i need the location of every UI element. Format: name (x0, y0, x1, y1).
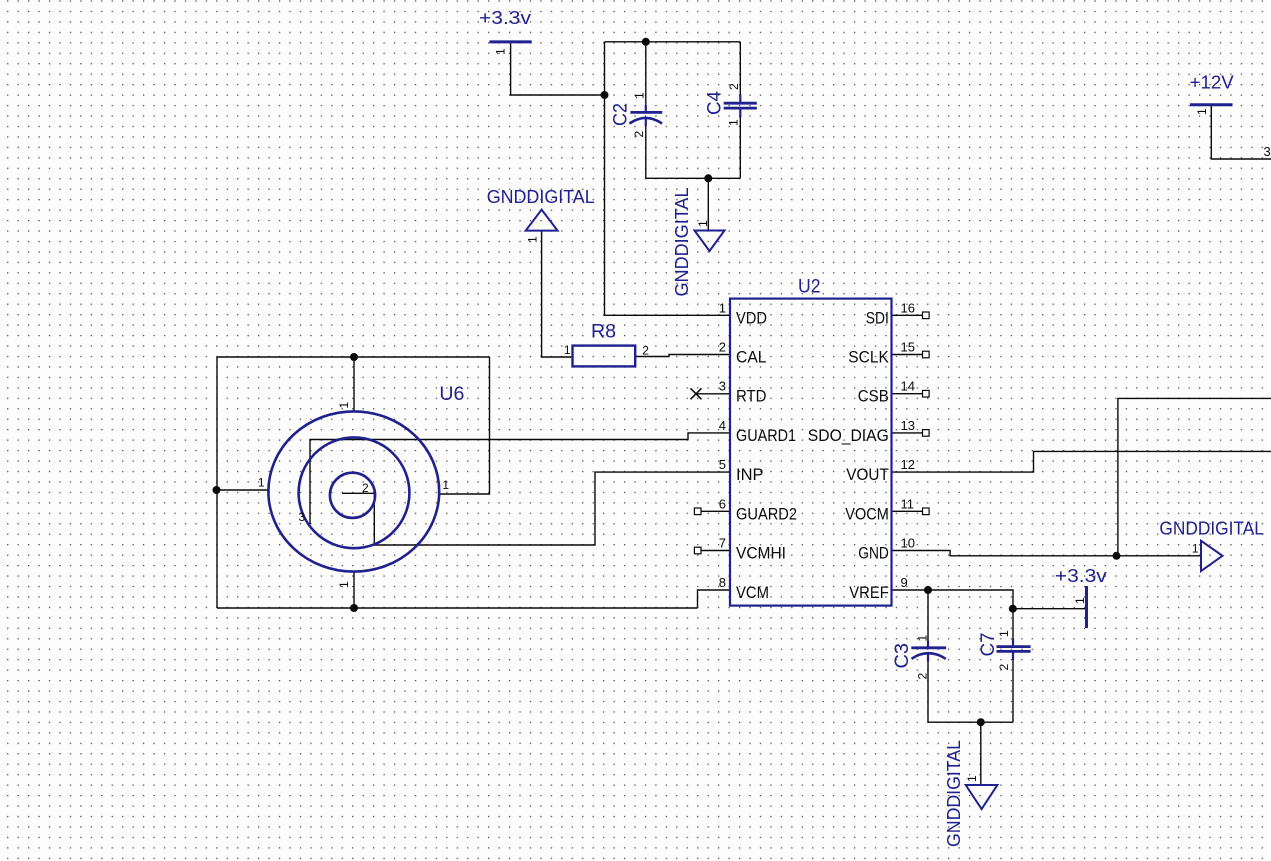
wire gnd drop from C2/C4 rail (707, 178, 709, 230)
svg-text:1: 1 (442, 478, 449, 492)
svg-text:RTD: RTD (736, 387, 767, 406)
svg-text:VCMHI: VCMHI (736, 544, 786, 563)
ground GNDDIGITAL (right, right-pointing triangle) (1159, 519, 1264, 572)
wire right vertical net (1118, 398, 1271, 555)
transducer U6 middle ring (299, 437, 410, 548)
svg-text:1: 1 (258, 476, 265, 490)
svg-text:12: 12 (901, 457, 915, 472)
wire GND to GNDDIGITAL (892, 551, 1202, 556)
U2 pin 2 (CAL) label (719, 340, 767, 367)
svg-text:3: 3 (719, 379, 726, 394)
svg-text:15: 15 (901, 340, 915, 355)
capacitor C4 (724, 95, 757, 118)
node U6 left junction (213, 486, 221, 494)
power +12V (top right) (1190, 73, 1234, 105)
svg-text:1: 1 (1192, 542, 1199, 556)
svg-text:INP: INP (736, 465, 764, 484)
node C2/C4 gnd junction (704, 174, 712, 182)
U2 pin 7 no-connect square (694, 547, 701, 554)
wire +3.3v right stub (1013, 608, 1085, 610)
svg-text:1: 1 (494, 48, 508, 55)
svg-text:U2: U2 (798, 277, 821, 298)
svg-text:SDI: SDI (866, 308, 889, 327)
wire GUARD2 stub (701, 510, 730, 512)
wire CSB stub (892, 393, 923, 395)
U2 pin 10 (GND) label (858, 536, 915, 563)
wire VOUT net (892, 451, 1271, 472)
svg-text:9: 9 (901, 575, 908, 590)
node +3.3v/VDD junction (601, 91, 609, 99)
U2 pin 6 (GUARD2) label (719, 496, 797, 523)
no-connect X on U2 pin 3 (691, 388, 702, 399)
wire +3.3v to VDD rail (511, 44, 605, 96)
U2 pin 16 (SDI) label (866, 300, 915, 327)
svg-text:7: 7 (719, 536, 726, 551)
wire C3 bottom lead (927, 659, 929, 723)
svg-text:2: 2 (362, 481, 369, 495)
svg-text:2: 2 (632, 131, 646, 138)
svg-text:VDD: VDD (736, 308, 767, 327)
wire SDI stub (892, 314, 923, 316)
svg-text:2: 2 (642, 344, 649, 358)
svg-text:C4: C4 (705, 91, 726, 115)
capacitor C7 (997, 639, 1031, 661)
U2 pin 6 no-connect square (694, 508, 701, 515)
svg-text:GNDDIGITAL: GNDDIGITAL (487, 187, 595, 207)
wire U6 pin1 bottom stub (353, 572, 355, 608)
wire U6 loop top (217, 356, 490, 358)
transducer U6 outer ring (268, 411, 439, 571)
wire GNDDIGITAL to R8 pin1 (542, 231, 573, 357)
wire C2 bottom lead (645, 124, 647, 178)
node U6 top junction (350, 353, 358, 361)
node C2 top junction (642, 38, 650, 46)
svg-text:1: 1 (719, 300, 726, 315)
U2 pin 3 (RTD) label (719, 379, 767, 406)
svg-text:4: 4 (719, 418, 726, 433)
svg-text:2: 2 (719, 340, 726, 355)
U2 pin 11 (VOCM) label (845, 496, 914, 523)
node GND net junction (1113, 552, 1121, 560)
svg-text:1: 1 (727, 119, 741, 126)
svg-text:GNDDIGITAL: GNDDIGITAL (1159, 519, 1264, 539)
svg-text:VOCM: VOCM (845, 504, 889, 523)
U2 pin 13 no-connect square (923, 430, 930, 437)
U2 pin 11 no-connect square (923, 508, 930, 515)
node VREF/C3 junction (924, 586, 932, 594)
svg-text:SDO_DIAG: SDO_DIAG (808, 426, 889, 445)
ground GNDDIGITAL (below C2/C4, down triangle) (672, 188, 725, 297)
wire U6 loop bottom (217, 607, 698, 609)
svg-text:1: 1 (564, 343, 571, 357)
wire R8 pin2 to CAL (636, 355, 731, 357)
svg-text:1: 1 (633, 92, 647, 99)
svg-text:R8: R8 (591, 322, 616, 343)
wire VCMHI stub (701, 550, 730, 552)
svg-text:3: 3 (299, 510, 306, 524)
node U6 bottom junction (350, 604, 358, 612)
svg-text:GNDDIGITAL: GNDDIGITAL (672, 188, 692, 297)
svg-text:1: 1 (696, 220, 710, 227)
transducer U6 inner ring (330, 473, 375, 518)
svg-text:6: 6 (719, 496, 726, 511)
wire C3-C7 bottom rail (928, 721, 1013, 723)
svg-text:CSB: CSB (858, 387, 889, 406)
svg-text:2: 2 (727, 83, 741, 90)
svg-text:16: 16 (901, 300, 915, 315)
U2 pin 8 (VCM) label (719, 575, 769, 602)
svg-text:GNDDIGITAL: GNDDIGITAL (944, 740, 964, 847)
wire gnd drop from C3/C7 rail (980, 722, 982, 785)
U2 pin 15 no-connect square (923, 351, 930, 358)
U2 pin 14 (CSB) label (858, 379, 915, 406)
capacitor C2 (630, 105, 663, 126)
U2 pin 16 no-connect square (923, 312, 930, 319)
svg-text:+12V: +12V (1190, 73, 1234, 93)
U2 pin 5 (INP) label (719, 457, 764, 484)
svg-text:11: 11 (901, 496, 915, 511)
wire C4 bottom lead (739, 116, 741, 178)
wire U6 loop left (216, 357, 218, 608)
U2 pin 13 (SDO_DIAG) label (808, 418, 915, 445)
svg-text:VOUT: VOUT (846, 465, 889, 484)
wire U6 pin1 left stub (217, 489, 268, 491)
svg-text:2: 2 (997, 664, 1011, 671)
wire C7 bottom lead (1012, 651, 1014, 722)
svg-text:SCLK: SCLK (848, 348, 889, 367)
svg-text:C7: C7 (978, 633, 999, 657)
wire U6 loop right (439, 357, 489, 494)
wire +12V net (1211, 106, 1271, 159)
svg-text:10: 10 (901, 536, 915, 551)
wire VDD vertical feed (605, 42, 731, 316)
svg-text:VREF: VREF (849, 583, 889, 602)
svg-text:1: 1 (997, 630, 1011, 637)
capacitor C3 (911, 641, 946, 662)
svg-text:GUARD2: GUARD2 (736, 504, 797, 523)
U2 pin 9 (VREF) label (849, 575, 907, 602)
wire VREF rail (892, 590, 1014, 646)
ground GNDDIGITAL (top left, up triangle) (487, 187, 595, 231)
svg-text:U6: U6 (439, 384, 464, 405)
ground GNDDIGITAL (below C3/C7, down triangle) (944, 740, 998, 847)
U2 pin 15 (SCLK) label (848, 340, 915, 367)
U2 pin 14 no-connect square (923, 390, 930, 397)
svg-text:GND: GND (858, 544, 889, 563)
power +3.3v (right, at VREF) (1055, 566, 1107, 628)
svg-text:1: 1 (526, 236, 540, 243)
svg-text:1: 1 (337, 581, 351, 588)
svg-text:5: 5 (719, 457, 726, 472)
wire top rail C2-C4 (605, 41, 741, 43)
svg-text:14: 14 (901, 379, 915, 394)
U2 pin 7 (VCMHI) label (719, 536, 786, 563)
power +3.3v (top left) (479, 8, 532, 42)
node +3.3v/C7 junction (1009, 605, 1017, 613)
svg-text:C2: C2 (611, 103, 632, 126)
wire INP to U6 pin2 (342, 472, 730, 545)
svg-text:2: 2 (916, 673, 930, 680)
svg-text:GUARD1: GUARD1 (736, 426, 796, 445)
svg-text:+3.3v: +3.3v (479, 8, 531, 28)
svg-text:CAL: CAL (736, 348, 767, 367)
U2 pin 1 (VDD) label (719, 300, 767, 327)
wire SDO_DIAG stub (892, 432, 923, 434)
wire bottom rail C2-C4 (646, 177, 741, 179)
svg-text:VCM: VCM (736, 583, 769, 602)
wire C3 top lead (927, 590, 929, 648)
svg-text:C3: C3 (892, 643, 913, 669)
wire RTD stub (696, 393, 730, 395)
wire U6 pin1 top stub (353, 357, 355, 412)
svg-text:1: 1 (916, 635, 930, 642)
wire GUARD1 to U6 pin3 (310, 433, 730, 524)
wire VCM to U6 loop (698, 590, 731, 608)
wire C2 top lead (645, 42, 647, 106)
U2 pin 4 (GUARD1) label (719, 418, 796, 445)
svg-text:+3.3v: +3.3v (1055, 566, 1107, 586)
svg-text:3: 3 (1264, 144, 1271, 159)
svg-text:1: 1 (1073, 597, 1087, 604)
op-amp U2 body (730, 299, 892, 606)
svg-text:8: 8 (719, 575, 726, 590)
U2 pin 12 (VOUT) label (846, 457, 915, 484)
svg-text:1: 1 (1195, 108, 1209, 115)
svg-text:1: 1 (965, 775, 979, 782)
wire VOCM stub (892, 510, 923, 512)
wire C4 top lead (739, 42, 741, 96)
wire SCLK stub (892, 354, 923, 356)
svg-text:1: 1 (337, 402, 351, 409)
resistor R8 (573, 346, 636, 367)
svg-text:13: 13 (901, 418, 915, 433)
node C3/C7 gnd junction (977, 718, 985, 726)
